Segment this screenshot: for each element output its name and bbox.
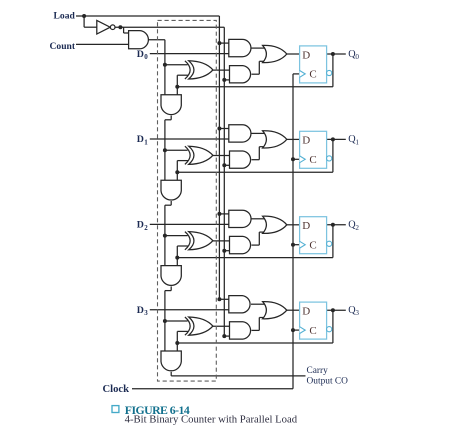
svg-text:C: C bbox=[309, 154, 316, 166]
svg-text:1: 1 bbox=[144, 138, 148, 146]
svg-text:Clock: Clock bbox=[103, 384, 130, 395]
svg-text:0: 0 bbox=[144, 53, 148, 61]
svg-text:D: D bbox=[137, 305, 144, 316]
svg-text:1: 1 bbox=[355, 138, 359, 146]
svg-text:3: 3 bbox=[144, 309, 148, 317]
svg-text:0: 0 bbox=[355, 53, 359, 61]
svg-text:Carry: Carry bbox=[307, 366, 329, 376]
svg-text:Count: Count bbox=[50, 41, 76, 52]
svg-text:2: 2 bbox=[144, 224, 148, 232]
svg-text:D: D bbox=[302, 49, 310, 61]
svg-text:Output CO: Output CO bbox=[307, 377, 349, 387]
svg-text:C: C bbox=[309, 69, 316, 81]
svg-text:D: D bbox=[137, 220, 144, 231]
svg-text:C: C bbox=[309, 325, 316, 337]
svg-text:Load: Load bbox=[54, 11, 76, 22]
svg-text:D: D bbox=[137, 134, 144, 145]
svg-text:D: D bbox=[302, 135, 310, 147]
svg-text:D: D bbox=[137, 49, 144, 60]
svg-text:C: C bbox=[309, 239, 316, 251]
svg-text:D: D bbox=[302, 306, 310, 318]
svg-text:D: D bbox=[302, 220, 310, 232]
svg-text:2: 2 bbox=[355, 224, 359, 232]
svg-text:3: 3 bbox=[355, 309, 359, 317]
svg-text:4-Bit Binary Counter with Para: 4-Bit Binary Counter with Parallel Load bbox=[125, 414, 298, 426]
